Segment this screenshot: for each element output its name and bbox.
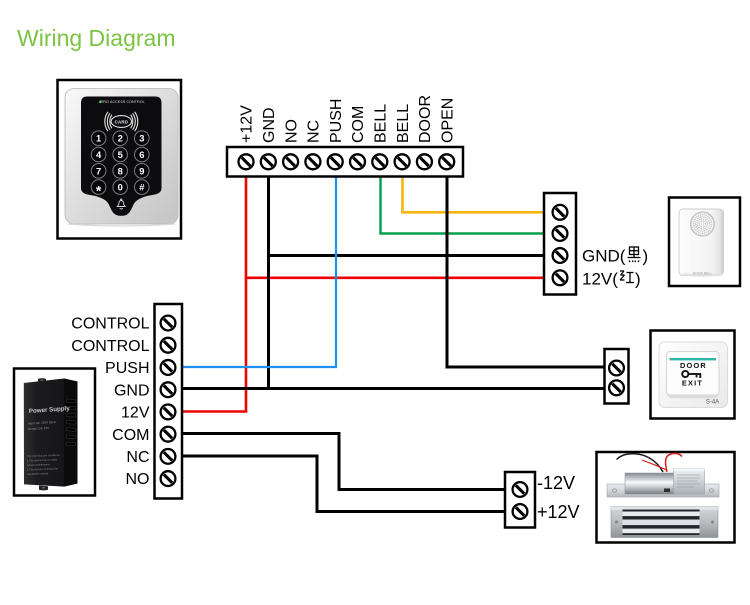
svg-text:DOOR BELL: DOOR BELL — [693, 272, 713, 276]
svg-text:1: 1 — [96, 133, 101, 144]
svg-text:NO: NO — [126, 471, 150, 488]
svg-text:S-4A: S-4A — [706, 400, 719, 406]
svg-text:DOOR: DOOR — [680, 361, 707, 370]
svg-text:-12V: -12V — [537, 473, 575, 493]
svg-text:CARD: CARD — [115, 119, 129, 124]
svg-text:DOOR: DOOR — [417, 95, 434, 143]
svg-text:GND: GND — [114, 382, 150, 399]
svg-text:#: # — [139, 182, 145, 193]
svg-text:splash maintenance: splash maintenance — [27, 462, 51, 467]
svg-text:PUSH: PUSH — [328, 99, 345, 143]
svg-text:GND: GND — [261, 107, 278, 143]
svg-text:CONTROL: CONTROL — [71, 338, 149, 355]
svg-text:): ) — [635, 270, 641, 289]
svg-text:NC: NC — [126, 449, 149, 466]
svg-text:2: 2 — [118, 133, 123, 144]
svg-text:+12V: +12V — [537, 502, 580, 522]
svg-text:PUSH: PUSH — [105, 360, 149, 377]
svg-text:BELL: BELL — [395, 104, 412, 143]
svg-text:GND(: GND( — [582, 247, 626, 266]
svg-text:RFID ACCESS CONTROL: RFID ACCESS CONTROL — [100, 100, 144, 104]
svg-text:NC: NC — [306, 120, 323, 143]
svg-text:Wiring Diagram: Wiring Diagram — [17, 25, 175, 51]
svg-text:NO: NO — [283, 119, 300, 143]
svg-text:CONTROL: CONTROL — [71, 316, 149, 333]
svg-text:residential manual: residential manual — [27, 471, 49, 476]
svg-text:12V: 12V — [121, 405, 150, 422]
svg-text:6: 6 — [139, 149, 144, 160]
svg-text:OPEN: OPEN — [439, 98, 456, 143]
svg-text:BELL: BELL — [373, 104, 390, 143]
svg-text:): ) — [643, 247, 649, 266]
svg-text:*: * — [96, 183, 102, 199]
svg-text:7: 7 — [96, 165, 101, 176]
svg-text:12V(: 12V( — [582, 270, 618, 289]
svg-text:COM: COM — [112, 427, 149, 444]
svg-text:EXIT: EXIT — [682, 378, 703, 387]
svg-text:3: 3 — [139, 133, 144, 144]
svg-text:4: 4 — [96, 149, 102, 160]
svg-text:COM: COM — [350, 106, 367, 143]
svg-text:+12V: +12V — [239, 105, 256, 143]
svg-text:8: 8 — [118, 165, 123, 176]
svg-text:9: 9 — [139, 165, 144, 176]
svg-text:0: 0 — [118, 182, 123, 193]
svg-text:5: 5 — [118, 149, 123, 160]
